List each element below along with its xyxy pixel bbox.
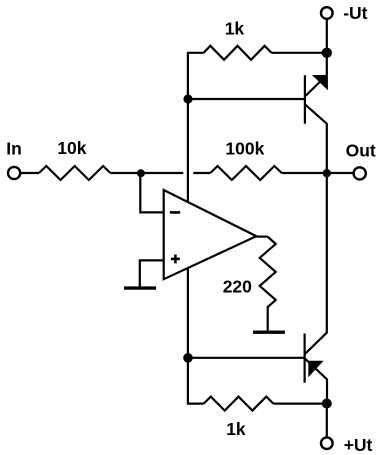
svg-text:+Ut: +Ut (344, 435, 373, 455)
svg-text:In: In (6, 138, 22, 158)
svg-text:100k: 100k (225, 138, 264, 158)
svg-text:-Ut: -Ut (343, 3, 367, 23)
svg-text:Out: Out (346, 141, 376, 161)
svg-text:1k: 1k (225, 19, 245, 39)
svg-text:220: 220 (223, 277, 252, 297)
svg-text:10k: 10k (57, 138, 86, 158)
svg-text:1k: 1k (226, 419, 246, 439)
